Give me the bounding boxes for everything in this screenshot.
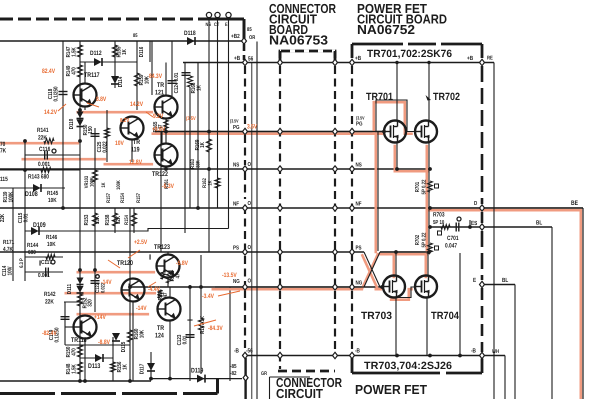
svg-text:0.01: 0.01 <box>23 213 30 222</box>
svg-text:D110: D110 <box>68 119 75 130</box>
svg-text:R157: R157 <box>136 193 142 203</box>
svg-text:D117: D117 <box>140 364 146 375</box>
svg-text:TR702: TR702 <box>433 91 460 103</box>
svg-text:47: 47 <box>163 292 169 297</box>
svg-text:D113: D113 <box>88 363 101 370</box>
svg-text:D: D <box>474 201 477 207</box>
svg-text:C116: C116 <box>39 146 51 153</box>
svg-text:0.01: 0.01 <box>182 335 189 344</box>
svg-text:D108: D108 <box>25 191 38 198</box>
svg-text:NF: NF <box>233 202 239 208</box>
svg-text:ES: ES <box>471 220 477 227</box>
svg-text:D112: D112 <box>90 50 102 57</box>
svg-text:+B: +B <box>467 55 474 62</box>
svg-text:22K: 22K <box>0 213 6 222</box>
svg-text:+B: +B <box>355 55 362 62</box>
svg-text:+14V: +14V <box>94 314 106 321</box>
svg-text:BL: BL <box>536 220 542 227</box>
svg-text:115: 115 <box>0 176 8 183</box>
svg-text:121: 121 <box>155 90 164 97</box>
svg-text:0.001: 0.001 <box>38 272 50 279</box>
svg-text:22K: 22K <box>38 135 47 142</box>
svg-text:84.3V: 84.3V <box>149 73 163 80</box>
svg-text:D111: D111 <box>67 283 73 294</box>
svg-text:O: O <box>248 200 252 207</box>
svg-text:-4.4V: -4.4V <box>148 286 160 293</box>
svg-text:8.2V: 8.2V <box>120 117 129 124</box>
svg-text:D114: D114 <box>118 76 124 87</box>
svg-text:O: O <box>248 161 252 168</box>
svg-text:CIRCUIT: CIRCUIT <box>276 386 323 399</box>
svg-text:NG: NG <box>356 280 363 287</box>
svg-text:-5.8V: -5.8V <box>176 260 188 267</box>
svg-text:BL: BL <box>502 277 508 284</box>
svg-text:56: 56 <box>248 56 254 63</box>
svg-text:POWER FET: POWER FET <box>355 382 427 397</box>
svg-text:NA06753: NA06753 <box>269 32 328 47</box>
svg-text:OR: OR <box>249 35 255 41</box>
svg-text:-14V: -14V <box>136 305 147 312</box>
svg-text:85: 85 <box>247 27 252 33</box>
svg-text:-B: -B <box>471 348 476 355</box>
svg-text:CT: CT <box>214 22 219 28</box>
svg-text:R141: R141 <box>37 127 49 134</box>
svg-text:R146: R146 <box>46 234 58 241</box>
svg-text:-B: -B <box>355 348 360 355</box>
svg-text:82K: 82K <box>115 215 122 224</box>
svg-text:-13.5V: -13.5V <box>222 272 237 279</box>
svg-text:124: 124 <box>155 333 164 340</box>
svg-text:14.2V: 14.2V <box>44 109 58 116</box>
svg-text:R171: R171 <box>3 239 15 246</box>
svg-text:-8.8V: -8.8V <box>98 339 110 346</box>
svg-text:D118: D118 <box>184 30 196 37</box>
svg-text:-14V: -14V <box>101 279 112 286</box>
svg-text:14.2V: 14.2V <box>130 101 144 108</box>
svg-text:+2.5V: +2.5V <box>134 239 148 246</box>
svg-text:100/: 100/ <box>7 266 14 275</box>
svg-text:TR: TR <box>157 325 164 332</box>
svg-text:1.5K: 1.5K <box>72 47 78 57</box>
svg-text:D119: D119 <box>191 368 204 375</box>
svg-text:RE: RE <box>487 56 493 62</box>
svg-text:R144: R144 <box>27 242 39 249</box>
svg-text:10K: 10K <box>48 197 57 204</box>
svg-text:10V: 10V <box>115 140 124 147</box>
svg-text:NS: NS <box>356 162 362 169</box>
svg-text:85: 85 <box>133 33 138 39</box>
svg-text:5P 10: 5P 10 <box>433 220 444 226</box>
svg-text:NS: NS <box>233 162 239 169</box>
svg-text:(3.5V: (3.5V <box>356 116 365 121</box>
svg-text:C124 0.01: C124 0.01 <box>173 72 180 93</box>
svg-text:O: O <box>248 278 252 285</box>
svg-text:PS: PS <box>356 245 362 252</box>
svg-text:0.001: 0.001 <box>38 161 51 168</box>
svg-text:3.5V: 3.5V <box>247 124 258 131</box>
svg-text:320: 320 <box>87 299 94 307</box>
svg-text:-82: -82 <box>230 370 237 377</box>
svg-text:O: O <box>248 244 252 251</box>
svg-text:TR701,702:2SK76: TR701,702:2SK76 <box>367 48 452 60</box>
svg-text:R142: R142 <box>44 291 56 298</box>
svg-text:150: 150 <box>87 126 94 134</box>
svg-text:R154: R154 <box>120 193 126 203</box>
svg-text:R702: R702 <box>415 235 421 245</box>
svg-text:PG: PG <box>356 121 363 128</box>
svg-text:1.5K: 1.5K <box>72 364 78 374</box>
svg-text:+0.6V: +0.6V <box>152 126 166 133</box>
svg-text:100K: 100K <box>8 191 15 202</box>
svg-text:R145: R145 <box>47 190 59 197</box>
svg-text:TR120: TR120 <box>117 260 133 267</box>
svg-text:100K: 100K <box>90 177 96 187</box>
svg-text:(3.5V: (3.5V <box>186 116 196 122</box>
svg-text:1K: 1K <box>200 141 206 147</box>
svg-text:TR122: TR122 <box>152 171 168 178</box>
svg-text:TR701: TR701 <box>366 91 393 103</box>
svg-text:4.7K: 4.7K <box>3 246 13 253</box>
svg-text:-84.3V: -84.3V <box>208 325 223 332</box>
svg-text:NF: NF <box>356 202 362 208</box>
svg-text:680: 680 <box>28 249 36 256</box>
svg-text:C701: C701 <box>447 235 459 242</box>
svg-text:-85: -85 <box>230 363 237 370</box>
svg-text:-3.4V: -3.4V <box>202 293 214 300</box>
svg-text:10K: 10K <box>139 329 146 338</box>
svg-text:12.8V: 12.8V <box>129 159 143 166</box>
svg-text:PG: PG <box>233 124 240 131</box>
svg-text:D116: D116 <box>138 46 145 57</box>
svg-text:TR123: TR123 <box>154 244 170 251</box>
svg-text:R158: R158 <box>104 214 111 225</box>
svg-text:-5.3V: -5.3V <box>162 183 174 190</box>
svg-text:R703: R703 <box>433 212 445 219</box>
svg-text:TR703: TR703 <box>361 310 392 322</box>
svg-text:1K: 1K <box>122 48 128 54</box>
svg-text:TR117: TR117 <box>84 72 100 79</box>
svg-text:22K: 22K <box>45 299 54 306</box>
svg-text:TR: TR <box>157 82 164 89</box>
svg-text:R701: R701 <box>415 182 421 192</box>
svg-text:470: 470 <box>71 348 78 356</box>
svg-text:WH: WH <box>492 349 499 355</box>
svg-text:+B: +B <box>234 55 241 62</box>
svg-text:10K: 10K <box>47 241 56 248</box>
svg-text:(3.5V: (3.5V <box>230 119 239 124</box>
svg-text:+B2: +B2 <box>231 33 240 40</box>
svg-text:-82.4V: -82.4V <box>42 330 57 337</box>
svg-text:NA06752: NA06752 <box>357 22 415 37</box>
svg-text:100K: 100K <box>116 180 122 190</box>
svg-text:9.2V: 9.2V <box>153 113 164 120</box>
svg-text:0.047: 0.047 <box>445 243 458 250</box>
svg-text:33K: 33K <box>94 215 101 224</box>
svg-text:7K: 7K <box>0 148 7 155</box>
svg-text:47: 47 <box>176 273 182 278</box>
svg-text:TR: TR <box>133 139 140 146</box>
svg-text:D109: D109 <box>33 222 46 229</box>
svg-text:82.4V: 82.4V <box>42 68 56 75</box>
svg-text:R154: R154 <box>124 215 130 225</box>
svg-text:NG: NG <box>233 278 240 285</box>
svg-text:E: E <box>473 277 476 284</box>
svg-text:0.022: 0.022 <box>102 141 109 152</box>
svg-text:1K: 1K <box>123 363 129 369</box>
svg-text:BE: BE <box>571 200 579 207</box>
svg-text:PS: PS <box>233 245 239 252</box>
svg-text:R153: R153 <box>83 214 90 225</box>
svg-text:470: 470 <box>71 67 78 75</box>
svg-text:TR703,704:2SJ26: TR703,704:2SJ26 <box>364 360 452 372</box>
svg-text:D115: D115 <box>121 341 127 352</box>
svg-text:1K: 1K <box>197 84 203 90</box>
svg-text:6.3 P: 6.3 P <box>19 258 25 268</box>
svg-text:8.8V: 8.8V <box>96 96 107 103</box>
svg-text:1K: 1K <box>101 182 107 187</box>
svg-text:TR118: TR118 <box>71 337 87 344</box>
svg-text:R143 680: R143 680 <box>28 174 49 181</box>
svg-text:0.1/250: 0.1/250 <box>53 86 60 101</box>
svg-text:5P 0.22: 5P 0.22 <box>422 180 428 195</box>
svg-text:-B: -B <box>234 348 239 355</box>
svg-text:GR: GR <box>261 371 267 377</box>
svg-text:5P 0.22: 5P 0.22 <box>422 233 428 248</box>
svg-text:1K: 1K <box>208 180 214 185</box>
svg-text:R157: R157 <box>106 193 112 203</box>
svg-text:TR704: TR704 <box>431 310 459 322</box>
svg-text:33K: 33K <box>196 160 202 168</box>
